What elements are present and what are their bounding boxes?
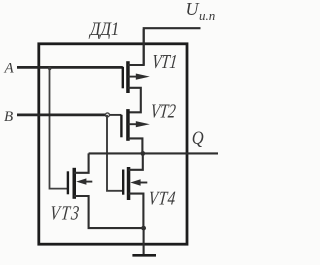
svg-text:U: U: [186, 0, 200, 19]
VT1 channel: [126, 61, 130, 93]
svg-text:A: A: [4, 61, 15, 77]
svg-text:ДД1: ДД1: [88, 18, 119, 40]
svg-text:VT4: VT4: [148, 187, 178, 209]
VT1 gate plate: [122, 67, 124, 89]
VT3 drain wire to output: [74, 153, 89, 172]
svg-text:Q: Q: [192, 127, 204, 148]
VT3 channel: [73, 168, 77, 199]
VT2 source wire to output node: [128, 138, 142, 153]
wire A to VT3 gate: [50, 67, 68, 188]
ground rail junction: [141, 226, 146, 231]
VT1 substrate arrow: [128, 76, 137, 78]
transistor VT3: [49, 153, 143, 228]
svg-text:B: B: [4, 109, 13, 125]
VT4 drain wire to output node: [129, 153, 143, 169]
VT4 gate plate: [122, 170, 124, 195]
node B junction: [105, 113, 109, 117]
VT1 source wire to VT2 drain: [128, 88, 141, 113]
ground symbol: [132, 254, 156, 257]
transistor VT4: [122, 153, 177, 228]
svg-text:VT3: VT3: [49, 202, 82, 224]
VT4 source wire to ground rail: [129, 194, 144, 229]
wire B to VT4 gate: [107, 115, 123, 191]
svg-text:и.п: и.п: [199, 8, 215, 23]
output node junction: [140, 151, 145, 156]
VT4 channel: [127, 167, 131, 200]
transistor VT1: [122, 29, 179, 112]
VT1 drain wire to supply: [128, 29, 144, 65]
VT3 substrate arrow: [86, 181, 93, 183]
input B wire: [17, 114, 107, 117]
VT3 source wire to ground rail: [74, 196, 144, 228]
input A wire: [17, 66, 123, 69]
IC body DD1 outline: [39, 44, 187, 244]
VT2 substrate arrow: [128, 123, 137, 125]
transistor VT2: [120, 100, 177, 154]
supply net U_ip wire: [144, 28, 201, 65]
node A junction: [48, 67, 51, 70]
output Q wire: [89, 152, 218, 154]
VT4 substrate arrow: [140, 182, 147, 184]
VT2 channel: [126, 109, 130, 141]
VT3 gate plate: [67, 171, 69, 194]
ground lead wire: [143, 228, 145, 255]
svg-text:VT2: VT2: [150, 100, 178, 122]
svg-text:VT1: VT1: [151, 50, 178, 72]
VT2 gate plate: [120, 115, 122, 138]
